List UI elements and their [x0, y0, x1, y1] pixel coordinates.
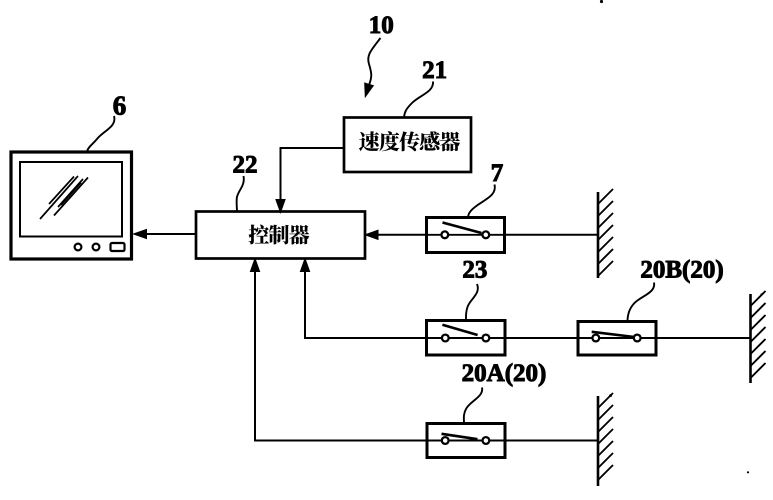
svg-text:7: 7 — [491, 160, 504, 187]
svg-text:21: 21 — [422, 57, 447, 84]
svg-text:20A(20): 20A(20) — [462, 360, 547, 387]
svg-text:20B(20): 20B(20) — [640, 257, 723, 284]
svg-text:22: 22 — [233, 152, 258, 179]
svg-text:10: 10 — [369, 12, 394, 39]
svg-text:23: 23 — [462, 257, 487, 284]
